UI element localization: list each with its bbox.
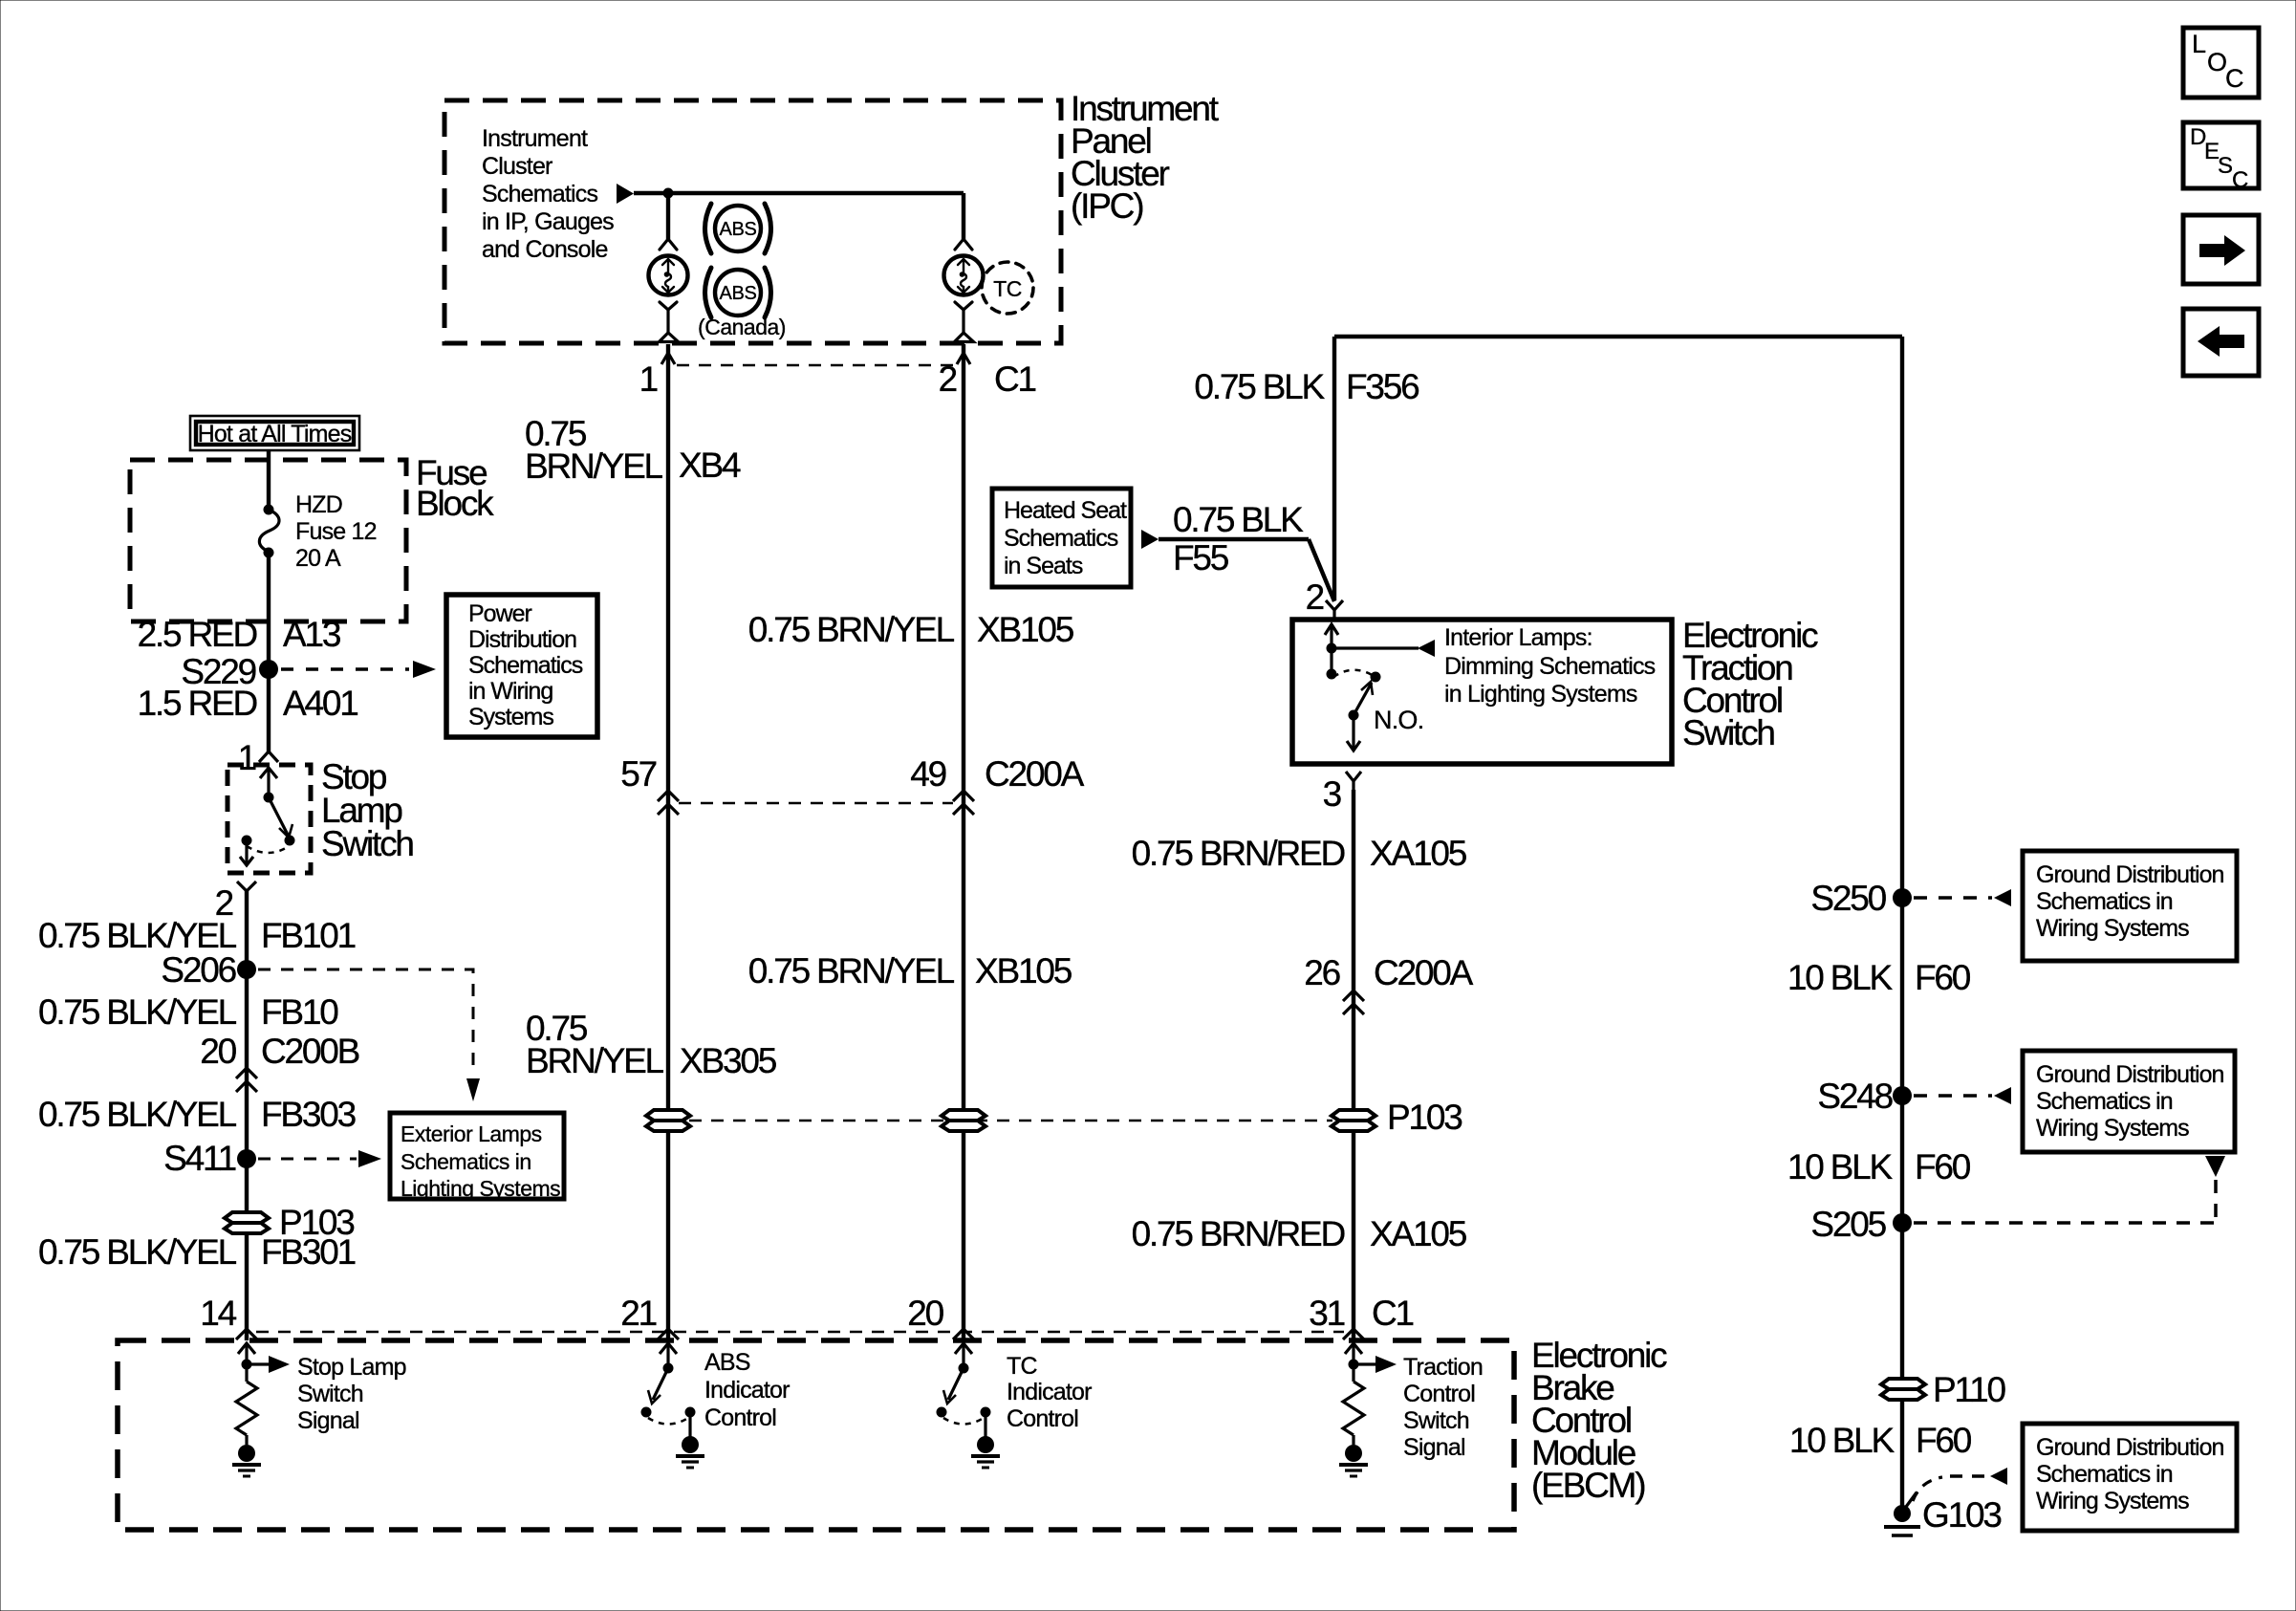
svg-text:FB101: FB101 (261, 916, 356, 955)
svg-text:XA105: XA105 (1370, 834, 1467, 873)
svg-text:Stop Lamp: Stop Lamp (297, 1354, 406, 1381)
svg-text:in Seats: in Seats (1004, 553, 1083, 579)
svg-text:BRN/YEL: BRN/YEL (525, 446, 663, 486)
svg-text:2.5 RED: 2.5 RED (138, 615, 257, 654)
svg-text:10 BLK: 10 BLK (1787, 958, 1894, 997)
svg-text:Interior Lamps:: Interior Lamps: (1444, 624, 1592, 651)
svg-text:Lighting Systems: Lighting Systems (401, 1176, 560, 1201)
svg-text:TC: TC (1007, 1353, 1037, 1380)
svg-text:S411: S411 (163, 1139, 235, 1178)
svg-text:C1: C1 (1372, 1294, 1414, 1333)
svg-text:Systems: Systems (468, 704, 553, 730)
svg-text:(Canada): (Canada) (698, 315, 786, 339)
svg-text:Schematics: Schematics (468, 652, 583, 679)
svg-text:P103: P103 (1387, 1098, 1462, 1137)
svg-text:Indicator: Indicator (1007, 1379, 1092, 1405)
svg-text:L: L (2192, 30, 2206, 58)
svg-text:C: C (2232, 167, 2248, 193)
svg-text:Schematics: Schematics (1004, 525, 1118, 552)
svg-text:Ground Distribution: Ground Distribution (2036, 1434, 2223, 1461)
svg-text:in IP, Gauges: in IP, Gauges (482, 208, 614, 235)
svg-text:Schematics in: Schematics in (2036, 888, 2173, 915)
svg-text:Switch: Switch (321, 824, 413, 863)
svg-text:(IPC): (IPC) (1071, 186, 1143, 226)
svg-text:0.75 BRN/RED: 0.75 BRN/RED (1132, 1214, 1345, 1253)
svg-text:C200B: C200B (261, 1032, 359, 1071)
svg-text:F60: F60 (1915, 958, 1971, 997)
svg-text:21: 21 (620, 1294, 656, 1333)
svg-text:Schematics in: Schematics in (2036, 1088, 2173, 1115)
svg-text:Ground Distribution: Ground Distribution (2036, 861, 2223, 888)
svg-text:(EBCM): (EBCM) (1531, 1466, 1645, 1505)
svg-text:G103: G103 (1922, 1495, 2001, 1535)
svg-text:ABS: ABS (719, 219, 756, 240)
svg-text:Traction: Traction (1403, 1354, 1483, 1381)
svg-text:0.75 BLK/YEL: 0.75 BLK/YEL (38, 916, 237, 955)
svg-text:Dimming Schematics: Dimming Schematics (1444, 653, 1656, 680)
svg-text:C1: C1 (994, 359, 1036, 399)
svg-text:F60: F60 (1915, 1147, 1971, 1186)
svg-text:XB305: XB305 (680, 1041, 777, 1080)
svg-text:Cluster: Cluster (482, 153, 552, 180)
svg-text:3: 3 (1323, 774, 1341, 814)
svg-text:in Wiring: in Wiring (468, 678, 552, 705)
svg-text:1: 1 (639, 359, 658, 399)
svg-text:0.75 BLK/YEL: 0.75 BLK/YEL (38, 1232, 237, 1272)
svg-text:S206: S206 (161, 950, 235, 990)
svg-text:49: 49 (910, 754, 945, 794)
svg-text:TC: TC (993, 276, 1022, 301)
svg-text:Wiring Systems: Wiring Systems (2036, 915, 2189, 942)
svg-text:A13: A13 (283, 615, 340, 654)
svg-text:F356: F356 (1346, 367, 1419, 406)
svg-text:C: C (2225, 64, 2244, 93)
svg-text:Power: Power (468, 600, 532, 627)
svg-text:F60: F60 (1916, 1421, 1972, 1460)
svg-text:XA105: XA105 (1370, 1214, 1467, 1253)
svg-text:Switch: Switch (1682, 713, 1774, 752)
svg-text:A401: A401 (283, 684, 357, 723)
svg-text:0.75 BLK/YEL: 0.75 BLK/YEL (38, 1095, 237, 1134)
svg-text:Hot at All Times: Hot at All Times (198, 421, 352, 447)
svg-text:Block: Block (416, 484, 494, 523)
svg-text:Schematics in: Schematics in (401, 1149, 531, 1174)
svg-text:S205: S205 (1810, 1205, 1886, 1244)
svg-text:Wiring Systems: Wiring Systems (2036, 1115, 2189, 1142)
svg-text:FB301: FB301 (261, 1232, 356, 1272)
svg-text:N.O.: N.O. (1374, 706, 1423, 734)
svg-text:Ground Distribution: Ground Distribution (2036, 1061, 2223, 1088)
svg-text:BRN/YEL: BRN/YEL (526, 1041, 664, 1080)
svg-text:10 BLK: 10 BLK (1787, 1147, 1894, 1186)
svg-text:HZD: HZD (295, 491, 342, 518)
svg-text:FB303: FB303 (261, 1095, 356, 1134)
svg-text:C200A: C200A (985, 754, 1085, 794)
svg-text:0.75 BLK: 0.75 BLK (1173, 500, 1304, 539)
svg-text:20: 20 (907, 1294, 943, 1333)
svg-text:in Lighting Systems: in Lighting Systems (1444, 681, 1637, 708)
svg-text:10 BLK: 10 BLK (1789, 1421, 1895, 1460)
svg-text:20: 20 (200, 1032, 236, 1071)
svg-text:O: O (2207, 48, 2227, 76)
svg-text:XB105: XB105 (975, 951, 1072, 991)
svg-text:1: 1 (238, 738, 256, 777)
svg-text:Distribution: Distribution (468, 626, 576, 653)
svg-text:Indicator: Indicator (704, 1377, 790, 1404)
svg-text:0.75 BRN/YEL: 0.75 BRN/YEL (748, 610, 955, 649)
svg-text:ABS: ABS (719, 283, 756, 304)
svg-text:0.75 BRN/RED: 0.75 BRN/RED (1132, 834, 1345, 873)
svg-text:S250: S250 (1810, 879, 1886, 918)
svg-text:XB4: XB4 (679, 446, 741, 485)
svg-text:C200A: C200A (1374, 953, 1474, 992)
svg-text:26: 26 (1304, 953, 1339, 992)
svg-text:Fuse 12: Fuse 12 (295, 518, 377, 545)
svg-text:Control: Control (1007, 1405, 1078, 1432)
svg-text:14: 14 (200, 1294, 236, 1333)
svg-text:Instrument: Instrument (482, 125, 588, 152)
svg-text:FB10: FB10 (261, 992, 338, 1032)
svg-text:57: 57 (620, 754, 656, 794)
svg-text:and Console: and Console (482, 236, 608, 263)
svg-text:S: S (2218, 153, 2233, 179)
svg-text:1.5 RED: 1.5 RED (138, 684, 257, 723)
svg-text:0.75 BLK: 0.75 BLK (1194, 367, 1325, 406)
svg-text:Exterior Lamps: Exterior Lamps (401, 1121, 542, 1146)
svg-text:2: 2 (1306, 577, 1324, 617)
svg-text:20 A: 20 A (295, 545, 341, 572)
svg-text:Control: Control (704, 1404, 776, 1431)
svg-text:Switch: Switch (297, 1381, 363, 1407)
svg-text:31: 31 (1309, 1294, 1344, 1333)
svg-text:Schematics: Schematics (482, 181, 598, 207)
svg-text:P110: P110 (1933, 1370, 2005, 1409)
svg-text:Signal: Signal (297, 1407, 359, 1434)
svg-text:Switch: Switch (1403, 1407, 1469, 1434)
svg-text:Signal: Signal (1403, 1434, 1465, 1461)
svg-text:XB105: XB105 (977, 610, 1074, 649)
svg-text:S248: S248 (1817, 1077, 1892, 1116)
svg-text:Wiring Systems: Wiring Systems (2036, 1488, 2189, 1514)
svg-text:0.75 BRN/YEL: 0.75 BRN/YEL (748, 951, 955, 991)
svg-text:Schematics in: Schematics in (2036, 1461, 2173, 1488)
svg-text:Control: Control (1403, 1381, 1475, 1407)
svg-text:2: 2 (939, 359, 957, 399)
svg-text:Heated Seat: Heated Seat (1004, 497, 1127, 524)
svg-text:0.75 BLK/YEL: 0.75 BLK/YEL (38, 992, 237, 1032)
svg-text:F55: F55 (1173, 538, 1229, 577)
svg-text:ABS: ABS (704, 1349, 750, 1376)
